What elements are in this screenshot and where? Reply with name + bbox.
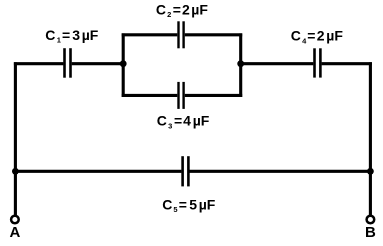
- wire: left vertical (node A riser): [14, 62, 17, 215]
- wire: bottom branch right segment: [185, 94, 242, 97]
- wire: right vertical (node B riser): [369, 62, 372, 215]
- node: right junction dot: [237, 60, 244, 67]
- svg-text:C2=2µF: C2=2µF: [156, 2, 208, 20]
- terminal B circle: [367, 216, 375, 224]
- wire: bottom branch left segment: [122, 94, 178, 97]
- capacitor C3: [179, 82, 184, 109]
- node: bottom-left junction dot: [12, 168, 19, 175]
- node: left junction dot: [120, 60, 127, 67]
- svg-text:B: B: [365, 224, 376, 241]
- wire: horizontal from right junction to C4: [241, 62, 314, 65]
- terminal A circle: [11, 216, 19, 224]
- capacitor C5: [183, 156, 189, 186]
- wire: horizontal from C4 to B riser: [322, 62, 372, 65]
- svg-text:C3=4µF: C3=4µF: [157, 113, 210, 131]
- capacitor C4: [315, 48, 321, 77]
- wire: horizontal from C1 to left junction: [72, 62, 124, 65]
- wire: top-left horizontal from A riser to C1: [14, 62, 64, 65]
- svg-text:C5=5µF: C5=5µF: [162, 196, 216, 214]
- svg-text:A: A: [9, 224, 20, 241]
- wire: top branch left segment: [122, 33, 178, 36]
- wire: top branch right segment: [185, 33, 242, 36]
- wire: parallel-box left vertical: [122, 33, 125, 97]
- svg-text:C1=3µF: C1=3µF: [45, 27, 99, 45]
- node: bottom-right junction dot: [367, 168, 374, 175]
- wire: bottom horizontal from A riser to C5: [15, 170, 181, 173]
- capacitor C2: [179, 21, 184, 48]
- capacitor C1: [65, 48, 71, 77]
- svg-text:C4=2µF: C4=2µF: [291, 28, 344, 46]
- wire: parallel-box right vertical: [239, 33, 242, 97]
- wire: bottom horizontal from C5 to B riser: [190, 170, 371, 173]
